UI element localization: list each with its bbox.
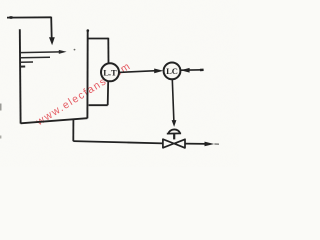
control valve body right triangle [174, 139, 185, 148]
speck near level arrow [74, 49, 76, 51]
outlet flow arrowhead [205, 142, 215, 147]
node inlet start blob [9, 16, 13, 19]
tank bottom wall [21, 118, 88, 123]
instrument LC (level controller) [164, 63, 181, 80]
outlet drop pipe from tank bottom [72, 119, 74, 141]
setpoint wire into LC from right [181, 69, 203, 71]
scan noise mark left edge [0, 104, 2, 111]
outlet pipe to valve [73, 141, 163, 143]
scan noise dot left lower [0, 136, 1, 139]
liquid level line 2 [20, 56, 50, 59]
wire inlet pipe horizontal [7, 16, 51, 18]
control valve body left triangle [163, 139, 174, 148]
liquid level line 1 [20, 51, 60, 54]
signal wire LT to LC [119, 71, 156, 73]
liquid level line 4 [20, 66, 25, 68]
wire inlet pipe vertical [50, 17, 53, 39]
outlet pipe after valve [185, 143, 206, 145]
liquid level arrowhead [59, 50, 67, 54]
chamber right wall lower [107, 81, 110, 105]
svg-text:LC: LC [166, 66, 178, 76]
instrument LT (level transmitter) [101, 63, 119, 81]
outlet tail dash [214, 143, 219, 145]
arrowhead down to valve actuator [172, 120, 177, 127]
actuator brim [167, 132, 181, 134]
valve stem [173, 134, 175, 140]
tank right wall [86, 30, 88, 118]
signal wire LC down to valve [172, 79, 174, 122]
chamber bottom pipe [89, 104, 108, 106]
valve actuator dome [169, 129, 180, 133]
tank left wall [19, 29, 22, 123]
inlet flow arrowhead [49, 37, 55, 45]
watermark www.elecfans.com [33, 60, 133, 129]
svg-text:L.T: L.T [103, 68, 117, 78]
paper background [0, 0, 239, 167]
chamber right wall upper [107, 38, 109, 64]
node top of right wall [87, 29, 90, 32]
liquid level line 3 [20, 61, 33, 63]
arrowhead into LC right side [181, 68, 190, 73]
setpoint end tick [200, 69, 204, 72]
chamber top pipe [88, 38, 109, 40]
arrowhead into LC [154, 69, 163, 74]
